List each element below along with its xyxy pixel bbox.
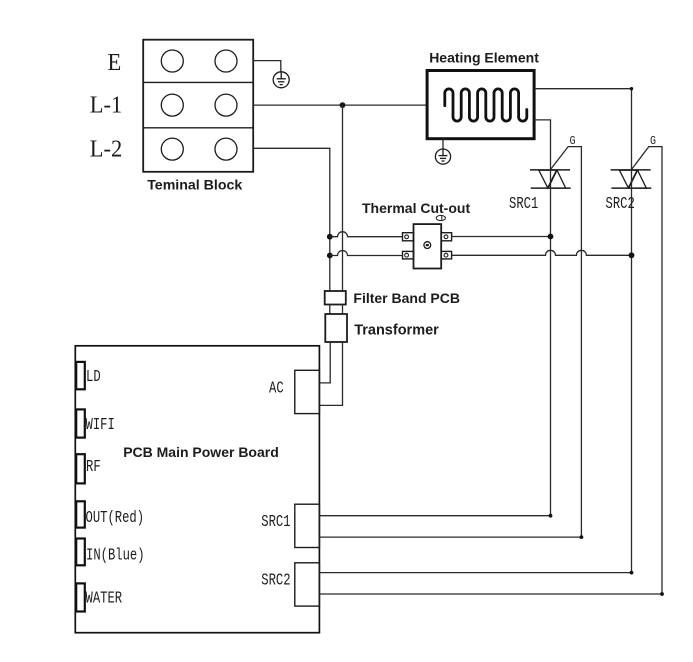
connector AC (295, 370, 320, 413)
thermal cut-out tab left bottom (403, 251, 414, 259)
thermal cut-out body (414, 224, 442, 268)
heating element coil (445, 89, 527, 121)
connector WATER (76, 583, 85, 611)
wire SRC1 main through triac down (550, 170, 552, 516)
wire SRC2 gate (632, 147, 663, 594)
terminal block screw holes (161, 50, 237, 160)
earth symbol PE2 (435, 149, 450, 164)
connector RF (76, 454, 85, 483)
thermal cut-out mark (436, 215, 445, 220)
connector SRC1 (295, 504, 320, 547)
svg-text:AC: AC (269, 380, 284, 398)
wire transformer left to AC (319, 342, 330, 383)
filter band PCB box (325, 291, 346, 305)
svg-text:L-2: L-2 (90, 136, 122, 163)
wire cutout right top to SRC1 (452, 236, 551, 238)
connector LD (76, 362, 85, 389)
wire heating bottom to SRC1 triac (534, 120, 550, 170)
wire cutout left top with hop (330, 232, 403, 237)
wire L-2 right and down (253, 148, 330, 291)
svg-text:G: G (650, 135, 656, 148)
svg-text:SRC2: SRC2 (606, 195, 635, 213)
heating element body (427, 71, 534, 139)
svg-text:SRC2: SRC2 (261, 572, 290, 590)
wire SRC2 gate return (319, 593, 662, 595)
wire transformer right to AC (319, 342, 342, 405)
wire heating element to earth (442, 139, 444, 150)
svg-text:L-1: L-1 (90, 92, 122, 119)
wire SRC2 MT return (319, 572, 631, 574)
thermal cut-out tab right bottom (441, 251, 451, 259)
node L-2 / cutout top (327, 234, 333, 240)
svg-text:WATER: WATER (86, 590, 123, 608)
svg-text:Filter Band PCB: Filter Band PCB (353, 290, 460, 306)
svg-text:LD: LD (86, 368, 101, 386)
thermal cut-out center circle (424, 242, 431, 249)
svg-text:Transformer: Transformer (354, 323, 439, 339)
svg-text:IN(Blue): IN(Blue) (86, 547, 145, 565)
svg-text:OUT(Red): OUT(Red) (86, 509, 145, 527)
wires filter to transformer (329, 305, 331, 315)
wire L-1 to heating element (253, 104, 427, 106)
terminal block body (143, 40, 253, 172)
PCB main power board body (75, 346, 319, 633)
svg-text:E: E (108, 49, 122, 76)
svg-text:Heating Element: Heating Element (429, 49, 539, 65)
wire cutout right bottom with hops to SRC2 (452, 250, 632, 255)
transformer box (325, 314, 347, 342)
svg-text:Teminal Block: Teminal Block (147, 177, 242, 193)
wire heating top to SRC2 triac (534, 89, 631, 170)
thermal cut-out tab right top (441, 233, 451, 241)
connector SRC2 (295, 563, 320, 606)
svg-text:PCB Main Power Board: PCB Main Power Board (123, 444, 279, 460)
node SRC1 main (548, 234, 554, 240)
wire SRC1 MT return (319, 515, 550, 517)
connector IN (76, 539, 85, 566)
wire SRC1 gate return (319, 536, 581, 538)
connector WIFI (76, 409, 85, 437)
thermal cut-out tab left top (403, 233, 452, 259)
svg-text:SRC1: SRC1 (261, 513, 290, 531)
earth symbol PE1 (273, 72, 289, 88)
wire SRC1 gate (551, 147, 582, 537)
svg-text:Thermal Cut-out: Thermal Cut-out (362, 200, 470, 216)
svg-text:G: G (570, 135, 576, 148)
wire L-1 branch down to filter (342, 105, 344, 291)
node L-2 / cutout bottom (327, 253, 333, 259)
node SRC2 main (629, 252, 635, 258)
svg-text:WIFI: WIFI (86, 416, 115, 434)
svg-text:SRC1: SRC1 (509, 195, 538, 213)
triac SRC2 (611, 170, 652, 188)
wire E to earth (253, 61, 281, 72)
node L-1 branch (340, 102, 346, 108)
svg-text:RF: RF (86, 458, 101, 476)
wire SRC2 main through triac down (631, 170, 633, 573)
triac SRC1 (530, 170, 571, 188)
connector OUT (76, 501, 85, 527)
wire cutout left bottom with hop (330, 251, 403, 256)
